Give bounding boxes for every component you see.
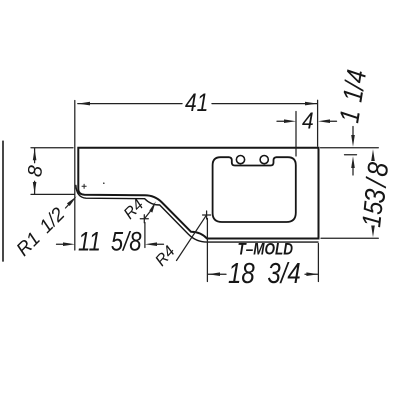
t-mold edge band line (76, 186, 318, 243)
dimension 8 (left) (31, 148, 75, 195)
center mark R4 upper (140, 215, 148, 223)
hole 1 (236, 156, 244, 164)
svg-text:15: 15 (358, 200, 389, 229)
dimension 41 (75, 100, 318, 250)
center mark R4 lower (203, 211, 211, 219)
main outline (counter top) (78, 148, 318, 239)
svg-text:41: 41 (185, 88, 208, 116)
svg-text:3/8: 3/8 (359, 158, 395, 205)
svg-text:18 3/4: 18 3/4 (228, 257, 301, 290)
dimension 1 1/4 (right top) (321, 127, 379, 176)
paper edge artifact (2, 141, 4, 261)
small dot (103, 182, 105, 184)
dimension 15 3/8 (right) (321, 237, 378, 239)
svg-text:R1 1/2: R1 1/2 (13, 204, 70, 261)
svg-text:8: 8 (24, 164, 47, 178)
dimension 18 3/4 (207, 219, 318, 282)
svg-text:R4: R4 (152, 243, 178, 270)
dimension 4 (277, 112, 337, 157)
hole 2 (260, 156, 268, 164)
svg-text:T–MOLD: T–MOLD (238, 241, 294, 258)
dimension 11 5/8 (57, 223, 164, 248)
cutout (rounded opening with notch and holes) (213, 157, 296, 222)
svg-text:11 5/8: 11 5/8 (78, 228, 142, 257)
svg-text:4: 4 (302, 107, 314, 133)
svg-text:1 1/4: 1 1/4 (334, 68, 372, 125)
center mark R1 1/2 (82, 184, 86, 188)
